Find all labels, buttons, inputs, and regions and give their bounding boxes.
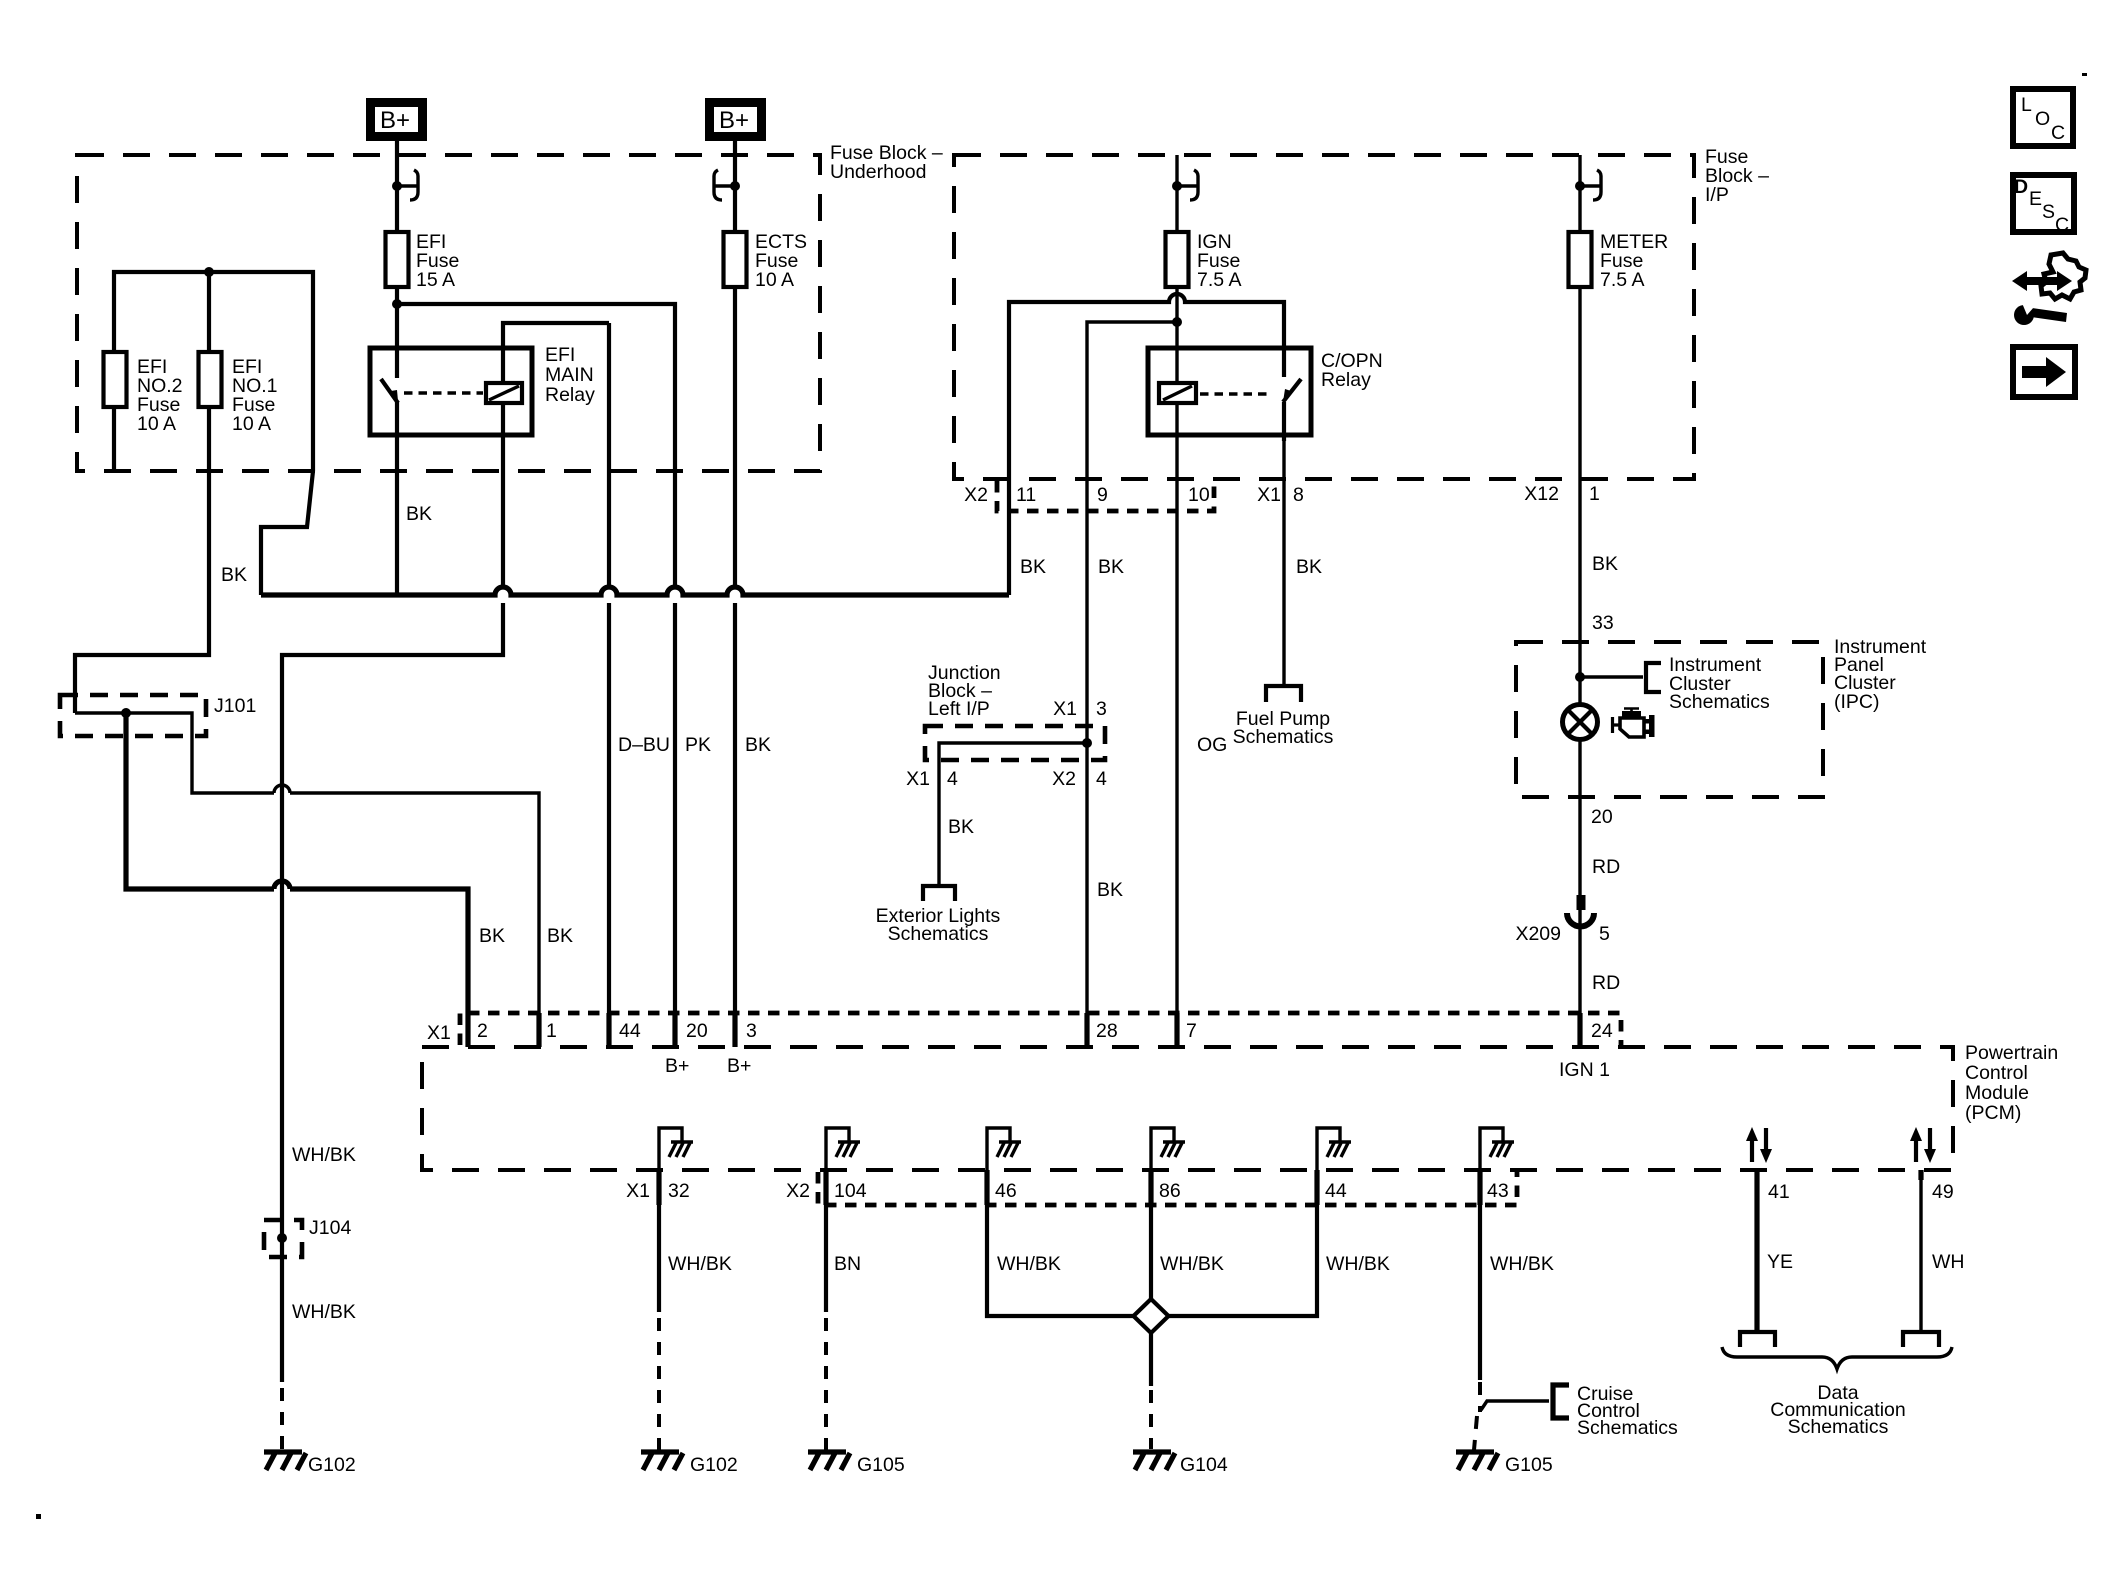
svg-text:X2: X2 [1052,768,1076,790]
icon check engine in IPC [1613,709,1655,738]
svg-text:L: L [2021,94,2032,116]
instrument panel cluster dashed box [1516,642,1823,797]
node junction on IGN output [1172,317,1182,327]
wire B+ 2 to ECTS fuse [733,141,737,232]
svg-text:B+: B+ [719,107,749,134]
fuse block tap symbol at EFI fuse [392,170,418,200]
svg-text:43: 43 [1487,1180,1509,1202]
svg-text:46: 46 [995,1180,1017,1202]
svg-text:Relay: Relay [1321,369,1371,391]
wire IGN fuse to C/OPN coil and PCM pin 7 [1175,287,1178,1013]
splice J104 dashed box [264,1220,302,1257]
power feed B+ box 1 [371,103,423,137]
wire slant into bus [261,471,313,595]
wire junction block internal to exterior lights [939,743,1087,884]
wire B+ 1 to EFI fuse [395,141,399,232]
svg-text:BK: BK [1592,553,1618,575]
svg-text:33: 33 [1592,612,1614,634]
icon wrench and arrows [2012,253,2086,325]
fuse block tap symbol at ECTS fuse [714,170,740,200]
svg-text:1: 1 [1589,483,1600,505]
svg-text:G102: G102 [690,1454,738,1476]
wire EFI NO.2 fuse bottom stub [112,407,116,471]
svg-text:MAIN: MAIN [545,364,594,386]
svg-text:7.5 A: 7.5 A [1600,269,1644,291]
PCM ground pigtail pin 104 [826,1128,860,1170]
relay EFI MAIN box [370,348,532,435]
label Fuse Block - I/P [1705,146,1769,206]
ground G102 center [641,1452,683,1470]
svg-text:J101: J101 [214,695,256,717]
wire dashed to ground G102 [280,1388,284,1450]
pin tick 49 [1918,1170,1923,1180]
svg-text:BK: BK [479,925,505,947]
wire C/OPN switch output to fuel pump [1282,441,1285,684]
label EFI MAIN Relay [545,344,595,406]
svg-text:J104: J104 [309,1217,351,1239]
svg-text:20: 20 [1591,806,1613,828]
node splice J101 [121,708,131,718]
fuse EFI 15A [386,232,409,287]
svg-text:Module: Module [1965,1082,2029,1104]
data arrows at pin 49 [1910,1127,1936,1163]
ground G102 left [264,1452,306,1470]
relay C/OPN link dashed [1200,392,1268,396]
wire junction to instrument cluster bracket [1580,675,1643,678]
label METER Fuse 7.5 A [1600,231,1668,291]
svg-text:2: 2 [477,1020,488,1042]
svg-text:5: 5 [1599,923,1610,945]
svg-text:20: 20 [686,1020,708,1042]
svg-text:E: E [2029,188,2042,210]
label C/OPN Relay [1321,350,1383,391]
pin tick X1-3 [732,1013,737,1047]
svg-text:BK: BK [406,503,432,525]
wire pin 46 to splice diamond [987,1205,1136,1316]
fuse block tap symbol at METER fuse [1575,170,1601,200]
label Exterior Lights Schematics [876,905,1001,945]
svg-text:Schematics: Schematics [1669,691,1770,713]
relay EFI MAIN link dashed [404,391,483,395]
wire pin 104 to ground G105 [824,1205,828,1312]
svg-text:10: 10 [1188,484,1210,506]
svg-text:BN: BN [834,1253,861,1275]
pin tick 41 [1754,1170,1759,1180]
svg-text:(PCM): (PCM) [1965,1102,2021,1124]
label ECTS Fuse 10 A [755,231,807,291]
mark bottom left [36,1514,41,1519]
wire EFI coil ground WH/BK [282,403,503,1382]
svg-text:BK: BK [1296,556,1322,578]
wire junction to PK pin 20 feed [397,304,675,1013]
wire hop arcs on pin1/pin2 runs over ground wire [274,785,290,793]
svg-text:Schematics: Schematics [1577,1417,1678,1439]
wire pin 43 to ground G105 [1478,1205,1482,1380]
node junction below EFI fuse [392,299,402,309]
svg-text:G102: G102 [308,1454,356,1476]
svg-text:RD: RD [1592,972,1620,994]
PCM ground pigtail pin 43 [1480,1128,1514,1170]
svg-text:BK: BK [221,564,247,586]
PCM ground pigtail pin 32 [659,1128,693,1170]
svg-text:RD: RD [1592,856,1620,878]
splice diamond [1134,1299,1169,1333]
wire lamp to IPC pin 20 [1578,740,1581,1013]
wire bus riser to fuse block I/P pin 11 [1009,294,1284,595]
svg-text:Schematics: Schematics [1233,726,1334,748]
svg-text:I/P: I/P [1705,184,1729,206]
wire branch to cruise control [1481,1401,1549,1410]
svg-text:Schematics: Schematics [888,923,989,945]
ground G105 left [808,1452,850,1470]
wire METER fuse feed [1578,155,1581,232]
label IGN Fuse 7.5 A [1197,231,1241,291]
brace data communication [1722,1347,1952,1369]
wire EFI NO.2 / NO.1 fuse top header [114,272,313,471]
off-page connector exterior lights [923,886,955,901]
pin tick X1-2 [465,1013,470,1047]
svg-text:Control: Control [1965,1062,2028,1084]
svg-text:49: 49 [1932,1181,1954,1203]
powertrain control module dashed box [422,1047,1953,1170]
svg-text:WH/BK: WH/BK [997,1253,1061,1275]
ground G105 right [1456,1452,1498,1470]
wire pin 44 to splice diamond [1166,1205,1317,1316]
svg-text:X1: X1 [906,768,930,790]
fuse block I/P dashed box [954,155,1694,479]
svg-text:(IPC): (IPC) [1834,691,1880,713]
svg-text:8: 8 [1293,484,1304,506]
pin tick X2-104 bottom [823,1170,828,1205]
svg-text:104: 104 [834,1180,867,1202]
pin tick X1-7 [1174,1013,1179,1047]
pin tick X1-28 [1084,1013,1089,1047]
wire EFI fuse to relay switch [395,287,399,348]
node splice J104 [277,1233,287,1243]
svg-text:Powertrain: Powertrain [1965,1042,2058,1064]
svg-text:B+: B+ [727,1055,751,1077]
svg-text:9: 9 [1097,484,1108,506]
wire ECTS fuse to PCM pin 3 [733,287,737,1013]
svg-text:X1: X1 [1053,698,1077,720]
icon box arrow [2013,347,2075,397]
wire D-BU to PCM pin 44 [607,323,611,1013]
svg-text:X2: X2 [964,484,988,506]
svg-text:G104: G104 [1180,1454,1228,1476]
svg-text:10 A: 10 A [755,269,794,291]
label EFI NO.1 Fuse 10 A [232,356,278,435]
wire J101 internal [75,713,539,1013]
svg-text:X209: X209 [1515,923,1561,945]
label Instrument Panel Cluster (IPC) [1834,636,1927,713]
pin tick 44 bottom [1314,1170,1319,1205]
node junction on fuse header [204,267,214,277]
wire IGN fuse feed [1175,155,1178,232]
wire EFI NO.1 fuse to J101 [75,272,209,713]
svg-text:G105: G105 [857,1454,905,1476]
svg-text:BK: BK [745,734,771,756]
wire pin 49 serial data WH [1919,1180,1922,1330]
junction block left I/P dashed box [925,726,1105,760]
relay EFI MAIN switch [381,348,398,437]
PCM ground pigtail pin 44 [1317,1128,1351,1170]
pin tick X1-32 bottom [656,1170,661,1205]
pin tick X1-44 [606,1013,611,1047]
svg-text:X1: X1 [427,1022,451,1044]
wire pin 86 to splice diamond [1149,1205,1153,1300]
svg-text:7: 7 [1186,1020,1197,1042]
svg-text:86: 86 [1159,1180,1181,1202]
svg-text:15 A: 15 A [416,269,455,291]
svg-text:WH/BK: WH/BK [292,1301,356,1323]
fuse block tap symbol at IGN fuse [1172,170,1198,200]
svg-text:10 A: 10 A [232,413,271,435]
fuse block underhood dashed box [77,155,820,471]
label Junction Block - Left I/P [928,662,1001,720]
wire J101 splice to PCM pin 2 [126,713,468,1013]
data arrows at pin 41 [1746,1127,1772,1163]
PCM ground pigtail pin 46 [987,1128,1021,1170]
icon box LOC [2013,89,2073,146]
svg-text:WH/BK: WH/BK [292,1144,356,1166]
label Cruise Control Schematics [1577,1383,1678,1439]
wire relay EFI coil riser [503,323,609,383]
PCM connector X2 dotted strip [818,1172,1517,1205]
label Data Communication Schematics [1770,1382,1905,1438]
node splice junction block [1082,738,1092,748]
svg-text:WH: WH [1932,1251,1965,1273]
connector X209 inline [1567,895,1594,927]
pin tick X1-20 [672,1013,677,1047]
relay EFI MAIN coil [486,383,522,403]
svg-text:C: C [2051,122,2065,144]
splice J101 dashed box [60,695,206,736]
wire pin 32 to ground G102 [657,1205,661,1312]
icon box DESC [2013,175,2074,236]
fuse METER 7.5A [1569,232,1592,287]
svg-text:BK: BK [948,816,974,838]
svg-text:1: 1 [546,1020,557,1042]
svg-text:44: 44 [1325,1180,1347,1202]
svg-text:BK: BK [1020,556,1046,578]
svg-text:3: 3 [746,1020,757,1042]
svg-text:X1: X1 [1257,484,1281,506]
label Fuel Pump Schematics [1233,708,1334,748]
svg-text:BK: BK [1097,879,1123,901]
wire diamond to ground G104 [1149,1333,1153,1386]
node junction inside IPC [1575,672,1585,682]
svg-text:10 A: 10 A [137,413,176,435]
svg-text:BK: BK [547,925,573,947]
wire METER fuse to IPC pin 33 [1578,287,1581,704]
svg-text:C: C [2055,214,2069,236]
label EFI Fuse 15 A [416,231,459,291]
svg-text:G105: G105 [1505,1454,1553,1476]
power feed B+ box 2 [710,103,762,137]
PCM ground pigtail pin 86 [1151,1128,1185,1170]
svg-text:BK: BK [1098,556,1124,578]
svg-text:Left I/P: Left I/P [928,698,990,720]
svg-text:X12: X12 [1524,483,1559,505]
wire BK bus [261,587,1009,595]
off-page connector data 41 [1740,1332,1775,1347]
svg-text:Relay: Relay [545,384,595,406]
svg-text:41: 41 [1768,1181,1790,1203]
svg-text:3: 3 [1096,698,1107,720]
svg-text:IGN 1: IGN 1 [1559,1059,1610,1081]
off-page connector instrument cluster [1646,663,1661,692]
svg-text:D–BU: D–BU [618,734,670,756]
fuse IGN 7.5A [1166,232,1189,287]
connector X2 dotted box on fuse block I/P [997,481,1214,511]
fuse EFI NO.2 10A [104,352,127,407]
fuse ECTS 10A [724,232,747,287]
lamp indicator in IPC [1563,705,1598,740]
svg-text:24: 24 [1591,1020,1613,1042]
relay C/OPN coil [1159,383,1196,403]
svg-text:D: D [2014,176,2028,198]
svg-text:Schematics: Schematics [1788,1416,1889,1438]
off-page connector data 49 [1903,1332,1939,1347]
svg-text:X1: X1 [626,1180,650,1202]
relay C/OPN switch [1283,348,1301,441]
svg-text:EFI: EFI [545,344,575,366]
ground G104 [1133,1452,1175,1470]
pin tick X1-1 [536,1013,541,1047]
svg-text:7.5 A: 7.5 A [1197,269,1241,291]
svg-text:OG: OG [1197,734,1227,756]
svg-text:B+: B+ [380,107,410,134]
svg-text:28: 28 [1096,1020,1118,1042]
svg-text:WH/BK: WH/BK [1160,1253,1224,1275]
svg-text:X2: X2 [786,1180,810,1202]
svg-text:44: 44 [619,1020,641,1042]
svg-text:WH/BK: WH/BK [668,1253,732,1275]
PCM connector X1 dotted strip [460,1013,1621,1045]
wire IGN junction to pin 9 / PCM pin 28 [1087,322,1177,1013]
off-page connector cruise control [1553,1385,1569,1418]
svg-text:WH/BK: WH/BK [1326,1253,1390,1275]
pin tick X1-24 [1577,1013,1582,1047]
pin tick 86 bottom [1148,1170,1153,1205]
label Instrument Cluster Schematics [1669,654,1770,713]
svg-text:Underhood: Underhood [830,161,927,183]
svg-text:B+: B+ [665,1055,689,1077]
pin tick 43 bottom [1477,1170,1482,1205]
pin tick 46 bottom [984,1170,989,1205]
relay C/OPN box [1148,348,1311,435]
svg-text:O: O [2035,108,2050,130]
wire relay EFI switch output to bus [395,437,399,595]
svg-text:YE: YE [1767,1251,1793,1273]
svg-text:4: 4 [1096,768,1107,790]
mark top right [2082,73,2087,76]
svg-text:S: S [2042,201,2055,223]
off-page connector fuel pump [1266,686,1301,702]
svg-text:WH/BK: WH/BK [1490,1253,1554,1275]
label EFI NO.2 Fuse 10 A [137,356,183,435]
label Fuse Block - Underhood [830,142,943,183]
fuse EFI NO.1 10A [199,352,222,407]
label Powertrain Control Module (PCM) [1965,1042,2058,1124]
wire pin 41 serial data YE [1754,1180,1759,1330]
svg-text:PK: PK [685,734,711,756]
svg-text:11: 11 [1016,484,1036,506]
svg-text:4: 4 [947,768,958,790]
svg-text:32: 32 [668,1180,690,1202]
